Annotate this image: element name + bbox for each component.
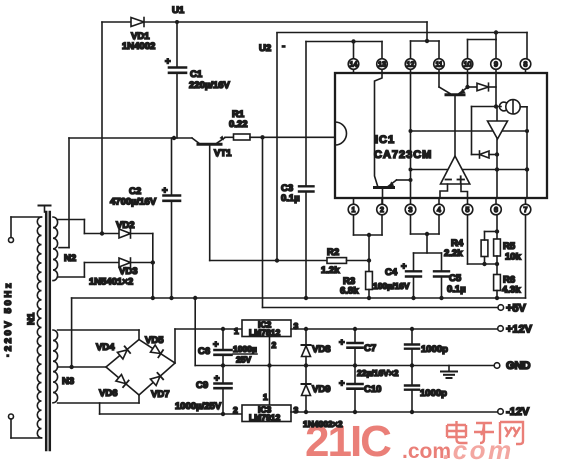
svg-text:VD2: VD2	[116, 220, 134, 231]
wire negative raw line to IC3	[100, 413, 242, 415]
pin 4	[434, 198, 445, 215]
diode VD6	[99, 367, 139, 399]
pin 14	[348, 59, 359, 73]
svg-text:6.8k: 6.8k	[340, 286, 359, 297]
svg-text:220µ/16V: 220µ/16V	[189, 80, 231, 91]
transistor Q1 internal pass	[439, 73, 468, 156]
wire pin10 internal	[465, 73, 469, 89]
svg-text:-12V: -12V	[506, 406, 530, 418]
svg-text:5: 5	[466, 207, 470, 214]
wire pin7 drop	[525, 215, 527, 298]
diode VD2	[116, 220, 153, 238]
svg-text:VT1: VT1	[214, 148, 232, 159]
svg-text:IC1: IC1	[375, 134, 395, 146]
svg-text:1N5401×2: 1N5401×2	[89, 277, 133, 288]
pin 11	[434, 59, 445, 73]
diode VD4	[96, 340, 139, 368]
wire pin7 internal vertical	[525, 107, 529, 198]
diode internal D1	[468, 83, 497, 91]
transistor Q2 internal lower	[375, 180, 411, 204]
node R3 top	[367, 258, 371, 262]
svg-text:1: 1	[234, 326, 239, 336]
svg-text:2: 2	[233, 405, 238, 415]
pin 10	[462, 59, 473, 73]
svg-text:VD4: VD4	[96, 342, 115, 353]
svg-text:+: +	[401, 261, 407, 272]
svg-text:C7: C7	[364, 343, 376, 354]
wire pin6 internal vertical	[495, 139, 499, 198]
svg-text:10k: 10k	[505, 252, 522, 263]
svg-text:-: -	[282, 41, 285, 52]
svg-text:2: 2	[272, 340, 277, 350]
svg-text:8: 8	[524, 62, 528, 69]
svg-text:VD7: VD7	[151, 389, 169, 400]
svg-text:C9: C9	[196, 380, 208, 391]
capacitor C1	[165, 22, 231, 138]
wire top rail U1	[102, 22, 427, 41]
pin 8	[520, 59, 531, 73]
node C1/C2 junction	[172, 136, 176, 140]
pin 12	[405, 59, 416, 73]
secondary coil N2	[53, 217, 76, 281]
svg-text:.com: .com	[443, 435, 514, 462]
svg-text:4700µ/16V: 4700µ/16V	[110, 197, 157, 208]
svg-text:1000p: 1000p	[421, 344, 448, 355]
pin 13	[377, 59, 388, 73]
wire N2 center tap feed	[59, 138, 69, 248]
svg-text:1: 1	[263, 392, 268, 402]
diode VD7	[139, 363, 175, 400]
wire primary bottom terminal	[9, 414, 42, 438]
svg-text:+: +	[213, 339, 219, 350]
svg-text:N2: N2	[64, 253, 76, 264]
pin 5	[462, 198, 473, 215]
svg-text:1.2k: 1.2k	[321, 265, 340, 276]
wire internal rail y131	[411, 130, 528, 132]
wire rail to N3 left drop	[71, 298, 73, 367]
svg-text:LM7812: LM7812	[249, 328, 280, 338]
wire +12V rail	[291, 327, 498, 331]
buffer amp triangle	[488, 107, 508, 140]
wire pin12 to pin3 internal vertical	[409, 73, 413, 198]
svg-text:3: 3	[409, 207, 413, 214]
wire N3 top tap to bridge top	[58, 330, 139, 340]
resistor R6	[494, 264, 522, 298]
wire ground drop from rail	[195, 298, 494, 368]
voltage reference symbol	[499, 100, 527, 114]
wire N3 bottom tap	[58, 395, 139, 414]
capacitor 1000p upper	[405, 329, 448, 366]
pin 1	[348, 198, 359, 215]
ground symbol	[441, 366, 457, 379]
pin 9	[491, 59, 502, 73]
svg-text:CA723CM: CA723CM	[374, 149, 432, 161]
svg-text:+5V: +5V	[506, 303, 527, 315]
svg-text:7: 7	[524, 207, 528, 214]
svg-text:C4: C4	[385, 267, 398, 278]
svg-text:+: +	[162, 185, 168, 196]
capacitor C2	[110, 138, 180, 298]
diode VD5	[139, 335, 175, 363]
capacitor C4	[373, 253, 421, 298]
wire primary top terminal	[9, 217, 42, 243]
svg-text:N1: N1	[26, 312, 37, 325]
node U1	[172, 5, 185, 24]
svg-text:C6: C6	[198, 346, 210, 357]
wire raw+ horizontal line y138	[69, 138, 200, 144]
terminal GND	[494, 360, 530, 372]
wire common rail y298	[72, 296, 526, 300]
wire pin13 internal drop	[375, 73, 383, 186]
wire bracket pins 12,11	[411, 39, 440, 59]
svg-text:12: 12	[407, 62, 415, 69]
svg-text:1N4002×2: 1N4002×2	[303, 419, 343, 429]
capacitor C5	[434, 253, 466, 298]
svg-text:1000µ/25V: 1000µ/25V	[175, 401, 222, 412]
svg-text:25V: 25V	[236, 355, 251, 365]
pin 6	[491, 198, 502, 215]
transformer core	[46, 212, 50, 450]
svg-text:C5: C5	[449, 273, 462, 284]
svg-text:+: +	[339, 337, 345, 348]
wire bridge plus riser	[175, 327, 242, 363]
terminal +12V	[498, 324, 533, 336]
wire N2 bottom tap	[58, 263, 119, 278]
node pins9-10 feed	[494, 30, 498, 34]
svg-text:1: 1	[352, 207, 356, 214]
svg-text:0.22: 0.22	[229, 119, 248, 130]
terminal +5V	[498, 303, 527, 315]
wire bracket pins 14,13	[306, 39, 382, 58]
transistor VT1	[198, 136, 232, 261]
resistor R1	[225, 109, 335, 140]
IC1 package box	[335, 73, 547, 198]
node U2 tap	[275, 258, 279, 262]
wire pins 3,4 tie	[411, 215, 442, 253]
wire pins 1,2 tie	[354, 215, 383, 261]
capacitor C10	[339, 366, 399, 413]
svg-text:6: 6	[494, 207, 498, 214]
svg-text:100µ/16V: 100µ/16V	[373, 281, 410, 291]
watermark 21IC logo	[305, 417, 451, 462]
wire IC3 ground leg	[263, 366, 270, 406]
wire base line R2 row	[210, 260, 327, 262]
capacitor C9	[175, 366, 232, 417]
svg-text:N3: N3	[62, 376, 74, 387]
svg-text:VD5: VD5	[145, 335, 164, 346]
diode VD8	[302, 329, 331, 366]
regulator IC3 LM7912	[233, 405, 299, 423]
svg-text:2.2k: 2.2k	[444, 248, 463, 259]
wire +5V feed vertical and line	[263, 137, 498, 307]
svg-text:1N4002: 1N4002	[122, 41, 155, 52]
capacitor C6	[198, 329, 257, 366]
svg-text:C2: C2	[129, 186, 141, 197]
svg-text:4.3k: 4.3k	[502, 285, 521, 296]
wire bracket pins 10,9	[468, 33, 497, 59]
svg-text:+: +	[214, 373, 220, 384]
svg-text:VD9: VD9	[312, 384, 330, 395]
resistor R3	[340, 261, 372, 299]
op-amp error amplifier	[440, 156, 470, 198]
capacitor C7	[339, 329, 376, 366]
svg-text:GND: GND	[506, 360, 531, 372]
svg-text:10: 10	[464, 62, 472, 69]
node R1 right / +5V feed	[260, 135, 264, 139]
pin 2	[377, 198, 388, 215]
svg-text:1000µ: 1000µ	[233, 344, 257, 354]
wire pin9 internal vertical	[494, 73, 498, 109]
wire N3 center tap to bridge left	[58, 365, 106, 369]
resistor R4	[444, 229, 499, 264]
wire VD2/VD3 cathode join	[151, 234, 155, 299]
svg-text:2: 2	[380, 207, 384, 214]
svg-text:14: 14	[350, 62, 358, 69]
svg-text:·220V 50Hz: ·220V 50Hz	[3, 281, 14, 357]
svg-text:11: 11	[436, 62, 443, 69]
pin 3	[405, 198, 416, 215]
svg-text:R2: R2	[327, 247, 339, 258]
zener diode internal	[472, 107, 498, 159]
wire ref loop top	[472, 106, 502, 108]
svg-text:LM7912: LM7912	[249, 413, 280, 423]
svg-text:0.1µ: 0.1µ	[447, 284, 466, 295]
svg-text:+12V: +12V	[506, 324, 533, 336]
svg-text:+: +	[165, 56, 171, 67]
diode VD3	[89, 258, 153, 288]
wire pin5 drop	[468, 215, 500, 266]
resistor R5	[494, 215, 522, 264]
capacitor 1000p lower	[405, 366, 447, 413]
svg-text:C1: C1	[190, 69, 203, 80]
secondary coil N3	[53, 330, 74, 403]
wire -12V rail	[291, 410, 498, 414]
wire IC2 ground leg	[269, 337, 271, 366]
primary coil N1	[26, 217, 42, 438]
resistor R2	[321, 247, 369, 276]
capacitor C3	[281, 42, 314, 299]
regulator IC2 LM7812	[234, 320, 299, 351]
svg-text:VD8: VD8	[312, 344, 330, 355]
svg-text:0.1µ: 0.1µ	[281, 193, 300, 204]
svg-text:C10: C10	[364, 384, 381, 395]
svg-text:9: 9	[494, 62, 498, 69]
watermark chinese dianzi wang	[447, 421, 523, 444]
wire U2 sense vertical	[259, 33, 527, 261]
diode VD9	[302, 366, 343, 430]
wire left vertical from top rail to VD2 line	[101, 22, 103, 234]
svg-text:+: +	[339, 378, 345, 389]
svg-text:22µ/16V×2: 22µ/16V×2	[357, 368, 399, 378]
core shield T mark	[39, 206, 51, 213]
svg-text:3: 3	[294, 405, 299, 415]
terminal -12V	[498, 406, 530, 418]
svg-text:1000p: 1000p	[420, 388, 447, 399]
svg-text:U2: U2	[259, 43, 271, 54]
svg-text:VD6: VD6	[99, 388, 117, 399]
svg-text:4: 4	[437, 207, 441, 214]
pin 7	[520, 198, 531, 215]
wire N2 top tap	[58, 220, 119, 236]
svg-text:U1: U1	[172, 5, 185, 16]
svg-text:13: 13	[378, 62, 386, 69]
diode VD1	[122, 18, 155, 53]
svg-text:R5: R5	[503, 241, 516, 252]
svg-text:VD3: VD3	[119, 266, 137, 277]
wire internal rail y169.5	[411, 169, 528, 171]
